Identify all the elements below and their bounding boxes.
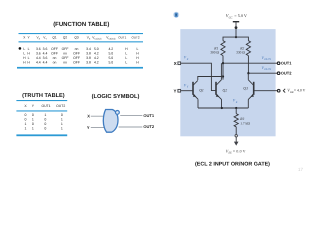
svg-text:OUT2: OUT2 <box>264 68 271 71</box>
truth table top rule <box>16 100 67 101</box>
svg-text:L: L <box>125 60 127 64</box>
svg-text:Q2: Q2 <box>63 36 67 40</box>
svg-text:1: 1 <box>44 113 46 117</box>
node split dot <box>235 36 237 38</box>
svg-text:= 0.0 V: = 0.0 V <box>233 149 246 153</box>
svg-text:3.4: 3.4 <box>86 47 91 51</box>
label V_E <box>233 99 238 104</box>
svg-text:4.2: 4.2 <box>94 52 99 56</box>
wire Y input <box>181 90 193 92</box>
svg-text:5.0: 5.0 <box>94 47 99 51</box>
label V_X <box>184 56 189 61</box>
svg-text:= 4.0 V: = 4.0 V <box>294 89 306 93</box>
svg-text:X: X <box>174 61 177 66</box>
emitter bus wire <box>198 107 248 109</box>
svg-text:CC: CC <box>229 15 233 19</box>
truth table data <box>25 113 63 130</box>
VCC rail bar <box>233 21 239 23</box>
svg-text:OFF: OFF <box>73 52 80 56</box>
function table bottom rule <box>17 67 143 69</box>
node VE junction <box>235 107 237 109</box>
wire X input <box>181 63 216 90</box>
transistor Q3 <box>248 80 254 108</box>
svg-text:on: on <box>53 60 57 64</box>
row bullet <box>19 47 22 50</box>
Q2 collector wire <box>220 63 222 80</box>
svg-text:1: 1 <box>32 126 34 130</box>
svg-text:OUT1: OUT1 <box>264 58 271 61</box>
resistor R2 <box>246 41 250 56</box>
function table top rule <box>19 33 144 34</box>
svg-text:0: 0 <box>25 113 27 117</box>
svg-text:R3: R3 <box>239 117 244 121</box>
truth table header <box>24 104 65 108</box>
svg-text:4.2: 4.2 <box>94 60 99 64</box>
svg-text:OUT1: OUT1 <box>143 113 154 118</box>
junction R1/OUT1 <box>222 62 224 64</box>
svg-text:OUT2: OUT2 <box>131 36 139 40</box>
svg-text:Q2: Q2 <box>223 89 228 93</box>
svg-text:4.4: 4.4 <box>43 60 48 64</box>
function table mid rule <box>19 41 144 42</box>
wire VBB base <box>254 90 277 92</box>
VCC label <box>226 13 247 19</box>
svg-text:0: 0 <box>32 122 34 126</box>
function table data rows <box>23 47 139 64</box>
svg-text:0: 0 <box>44 126 46 130</box>
transistor Q2 <box>216 80 222 108</box>
svg-text:(FUNCTION TABLE): (FUNCTION TABLE) <box>53 21 109 28</box>
circuit background panel <box>180 29 275 136</box>
transistor Q1 <box>193 80 198 108</box>
svg-text:1: 1 <box>25 122 27 126</box>
VEE arrow <box>235 137 237 142</box>
junction Q2 emitter <box>221 107 223 109</box>
R3 top lead <box>235 108 237 114</box>
svg-text:OFF: OFF <box>62 47 69 51</box>
R2 bottom lead <box>247 56 249 74</box>
Q1 collector wire <box>198 77 223 81</box>
resistor R1 <box>221 41 225 56</box>
svg-text:3.8: 3.8 <box>86 60 91 64</box>
svg-text:0: 0 <box>25 118 27 122</box>
svg-text:OFF: OFF <box>73 60 80 64</box>
svg-text:0: 0 <box>32 113 34 117</box>
svg-text:EE: EE <box>228 151 233 154</box>
label V_OUT1 <box>262 56 272 61</box>
R3 bottom lead <box>235 127 237 135</box>
OUT1 wire <box>223 62 277 64</box>
svg-text:(TRUTH TABLE): (TRUTH TABLE) <box>22 92 65 99</box>
junction R2/Q3/OUT2 <box>247 72 249 74</box>
svg-text:OFF: OFF <box>51 52 58 56</box>
logic symbol OUT2 wire <box>119 126 143 128</box>
svg-text:X: X <box>87 114 90 119</box>
R1 bottom lead <box>222 56 224 64</box>
svg-text:Q1: Q1 <box>199 88 204 92</box>
svg-text:1.7 kΩ: 1.7 kΩ <box>240 122 250 126</box>
VBB terminal <box>277 89 280 92</box>
svg-text:0: 0 <box>44 118 46 122</box>
svg-text:0: 0 <box>61 113 63 117</box>
svg-text:3.8: 3.8 <box>86 52 91 56</box>
label V_OUT2 <box>262 66 272 71</box>
resistor R3 <box>234 114 238 127</box>
svg-text:OUT1: OUT1 <box>281 61 292 66</box>
VCC terminal dot <box>235 26 238 29</box>
truth table bottom rule <box>16 134 67 136</box>
svg-text:Q3: Q3 <box>74 36 78 40</box>
logic symbol input Y wire <box>91 127 106 129</box>
Q3 collector wire <box>247 73 249 80</box>
svg-text:OUT1: OUT1 <box>41 104 50 108</box>
svg-text:0: 0 <box>44 122 46 126</box>
top rail wire <box>223 37 248 41</box>
figure marker (a) <box>173 12 179 18</box>
svg-text:on: on <box>75 47 79 51</box>
svg-text:(ECL 2 INPUT OR/NOR GATE): (ECL 2 INPUT OR/NOR GATE) <box>195 161 270 167</box>
NOR bubble <box>116 111 120 115</box>
svg-text:E: E <box>235 101 238 104</box>
svg-text:OUT2: OUT2 <box>56 104 65 108</box>
svg-text:(LOGIC SYMBOL): (LOGIC SYMBOL) <box>92 93 140 100</box>
svg-text:4.2: 4.2 <box>108 47 113 51</box>
svg-text:Y: Y <box>87 125 90 130</box>
svg-text:1: 1 <box>25 126 27 130</box>
svg-text:5.0: 5.0 <box>108 60 113 64</box>
svg-text:17: 17 <box>298 167 304 172</box>
svg-text:L: L <box>23 47 25 51</box>
svg-text:OUT2: OUT2 <box>143 124 154 129</box>
collector bus vertical <box>222 63 224 79</box>
VEE terminal circle <box>235 135 237 137</box>
svg-text:OUT1: OUT1 <box>118 36 126 40</box>
svg-text:Y: Y <box>174 89 177 94</box>
svg-text:300 Ω: 300 Ω <box>210 51 219 55</box>
svg-text:330 Ω: 330 Ω <box>236 51 245 55</box>
OUT1 terminal <box>277 62 280 65</box>
VEE label <box>226 148 246 154</box>
label V_Y <box>184 83 189 88</box>
svg-text:3.6: 3.6 <box>36 52 41 56</box>
svg-text:1: 1 <box>61 122 63 126</box>
svg-text:L: L <box>125 52 127 56</box>
VCC wire down <box>235 22 237 37</box>
svg-text:X: X <box>186 58 189 61</box>
svg-text:OUT2: OUT2 <box>281 71 292 76</box>
OR gate body <box>103 110 118 133</box>
OUT2 wire <box>248 72 277 74</box>
logic symbol input X wire <box>91 115 106 117</box>
svg-text:= 5.0 V: = 5.0 V <box>234 13 247 18</box>
junction Q1 collector <box>222 75 224 77</box>
svg-text:L: L <box>28 47 30 51</box>
svg-text:Q1: Q1 <box>52 36 56 40</box>
svg-text:Q3: Q3 <box>243 87 248 91</box>
svg-text:OFF: OFF <box>51 47 58 51</box>
svg-text:4.4: 4.4 <box>36 60 41 64</box>
VBB label <box>283 88 305 94</box>
function table header row <box>23 36 140 41</box>
svg-text:3.6: 3.6 <box>36 47 41 51</box>
logic symbol OUT1 wire <box>120 114 142 116</box>
svg-text:on: on <box>63 60 67 64</box>
svg-text:L: L <box>137 47 139 51</box>
truth table mid rule <box>16 110 67 111</box>
svg-text:3.6: 3.6 <box>43 47 48 51</box>
OUT2 terminal <box>277 72 280 75</box>
svg-text:on: on <box>63 52 67 56</box>
svg-text:1: 1 <box>61 118 63 122</box>
svg-text:5.0: 5.0 <box>108 52 113 56</box>
svg-text:1: 1 <box>32 118 34 122</box>
svg-text:L: L <box>23 52 25 56</box>
svg-text:4.4: 4.4 <box>43 52 48 56</box>
svg-text:1: 1 <box>61 126 63 130</box>
